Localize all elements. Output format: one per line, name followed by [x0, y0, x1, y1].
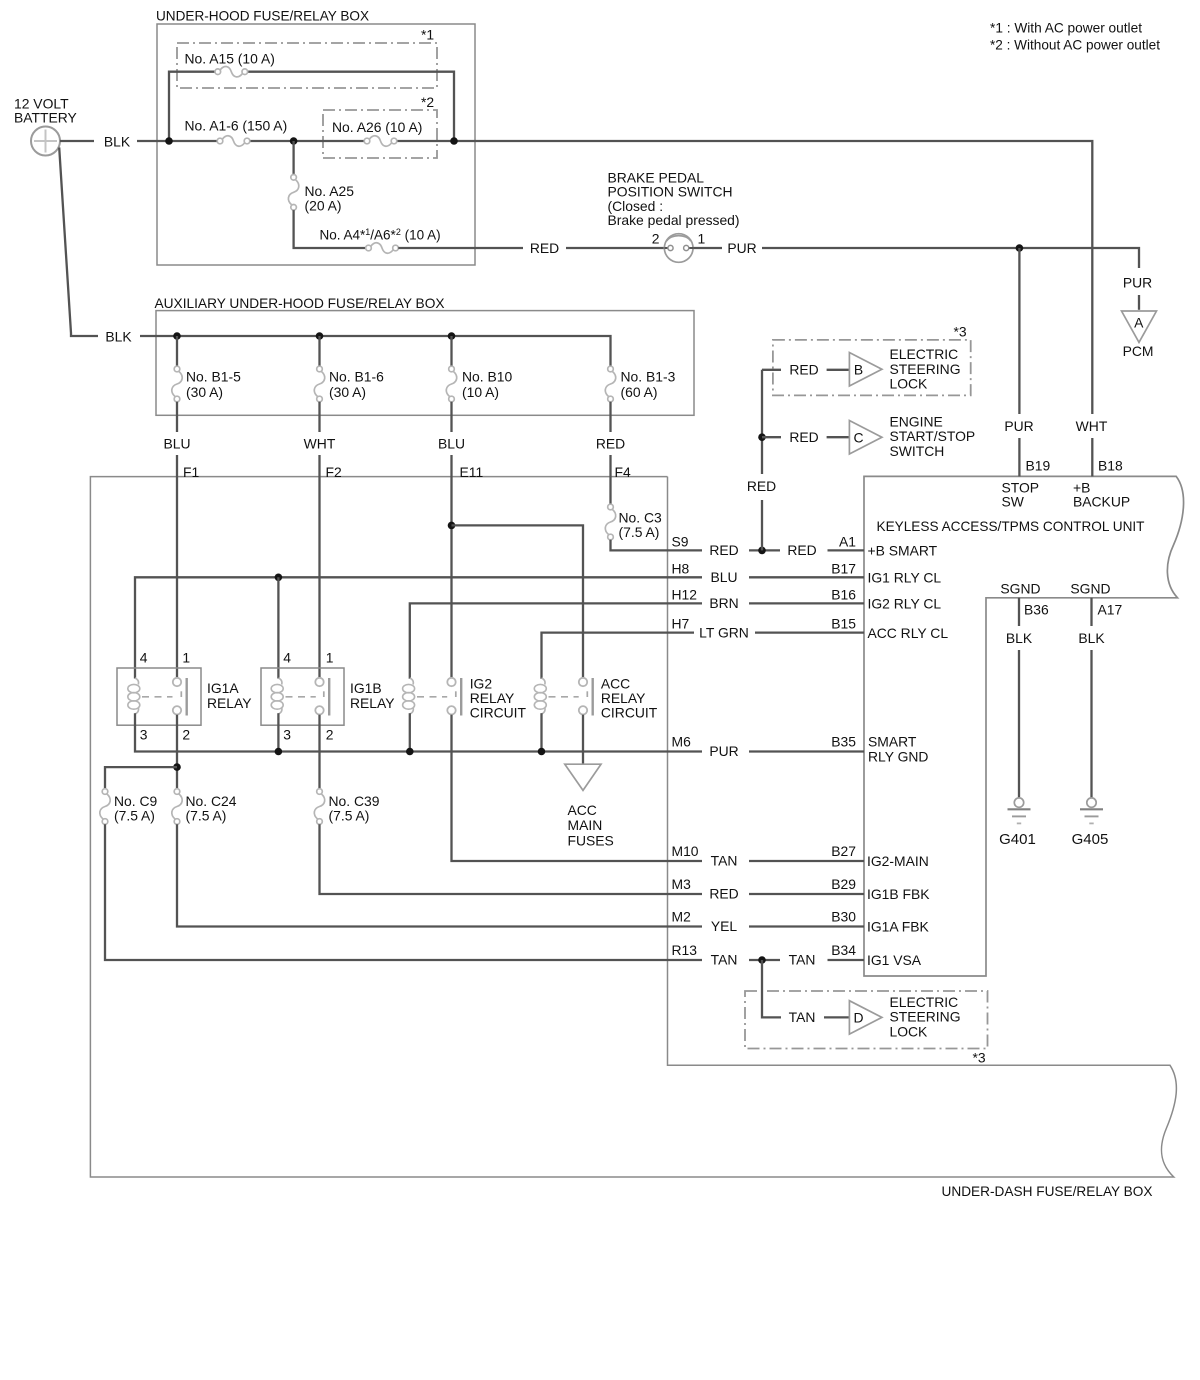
- svg-text:WHT: WHT: [304, 435, 336, 451]
- svg-text:IG1B FBK: IG1B FBK: [867, 886, 930, 902]
- node E11 branch to ACC switch: [448, 522, 456, 530]
- svg-text:LOCK: LOCK: [890, 1023, 929, 1039]
- svg-text:RED: RED: [530, 240, 559, 256]
- node aux bus junction B1-6: [316, 332, 324, 340]
- node M6 junction ACC: [538, 748, 546, 756]
- svg-text:MAIN: MAIN: [568, 817, 603, 833]
- svg-text:4: 4: [140, 650, 148, 666]
- svg-text:RED: RED: [789, 362, 818, 378]
- wire PUR drop to STOP SW pin B19 lower: [1018, 438, 1020, 476]
- svg-text:B19: B19: [1026, 458, 1051, 474]
- svg-text:LT GRN: LT GRN: [699, 624, 749, 640]
- connector D to electric steering lock: [849, 1001, 882, 1034]
- svg-text:No. A15 (10 A): No. A15 (10 A): [185, 51, 275, 67]
- svg-text:*3: *3: [954, 323, 967, 339]
- wire PUR to pin B35: [749, 750, 864, 752]
- svg-text:IG2-MAIN: IG2-MAIN: [867, 853, 929, 869]
- svg-text:TAN: TAN: [789, 952, 816, 968]
- svg-text:START/STOP: START/STOP: [890, 428, 976, 444]
- wire TAN R13 from fuse C9: [105, 824, 702, 960]
- svg-text:1: 1: [326, 650, 334, 666]
- svg-text:1: 1: [698, 231, 706, 247]
- svg-text:SWITCH: SWITCH: [890, 443, 945, 459]
- dash-dot option box *3 (electric steering lock D): [745, 991, 988, 1049]
- svg-text:IG2 RLY CL: IG2 RLY CL: [868, 596, 942, 612]
- svg-text:TAN: TAN: [711, 853, 738, 869]
- fuse No. C9 (7.5 A): [100, 789, 110, 825]
- wire BLU H8 from IG1A pin 4 to box edge: [135, 577, 702, 678]
- svg-text:UNDER-DASH FUSE/RELAY BOX: UNDER-DASH FUSE/RELAY BOX: [942, 1183, 1153, 1199]
- node RED riser junction to C: [758, 433, 766, 441]
- under-dash fuse/relay box outline (torn right edge): [90, 477, 1176, 1177]
- dash-dot option box *3 (electric steering lock B): [773, 340, 971, 396]
- svg-text:H12: H12: [672, 587, 698, 603]
- relay ACC contacts: [579, 678, 587, 715]
- svg-text:*3: *3: [973, 1050, 986, 1066]
- dash-dot option box *2 (No. A26): [323, 110, 437, 158]
- svg-text:No. A1-6 (150 A): No. A1-6 (150 A): [185, 118, 288, 134]
- dash-dot option box *1 (No. A15): [177, 43, 437, 88]
- battery 12 VOLT BATTERY symbol: [31, 127, 60, 156]
- svg-text:BLK: BLK: [1078, 630, 1105, 646]
- svg-text:G405: G405: [1072, 831, 1109, 848]
- svg-text:B34: B34: [831, 942, 856, 958]
- wire A15 branch right riser: [248, 72, 454, 141]
- node aux bus junction B1-5: [173, 332, 181, 340]
- svg-text:RED: RED: [789, 429, 818, 445]
- svg-text:ACC: ACC: [568, 802, 597, 818]
- fuse No. B1-3 (60 A): [605, 366, 615, 402]
- svg-text:No. B10: No. B10: [462, 369, 512, 385]
- wire RED riser top corner to B: [762, 369, 781, 371]
- svg-text:RELAY: RELAY: [207, 695, 252, 711]
- svg-text:BACKUP: BACKUP: [1073, 494, 1130, 510]
- fuse No. A26 (10 A): [364, 136, 397, 146]
- svg-text:G401: G401: [999, 831, 1036, 848]
- wire BRN H12 from IG2 coil to box edge: [410, 603, 702, 678]
- svg-text:*1 : With AC power outlet: *1 : With AC power outlet: [990, 20, 1142, 36]
- connector A to PCM: [1122, 311, 1157, 342]
- svg-text:ENGINE: ENGINE: [890, 413, 943, 429]
- wire RED A4 fuse to brake switch: [398, 247, 523, 249]
- svg-text:H8: H8: [672, 560, 690, 576]
- wire RED label to brake switch: [566, 247, 664, 249]
- wire TAN M10 from IG2 switch: [452, 715, 703, 861]
- svg-text:R13: R13: [672, 942, 698, 958]
- svg-text:H7: H7: [672, 616, 690, 632]
- svg-text:3: 3: [140, 727, 148, 743]
- svg-text:F1: F1: [183, 464, 199, 480]
- wire BLK battery to under-hood box: [60, 140, 94, 142]
- fuse No. B1-6 (30 A): [314, 366, 324, 402]
- node main bus middle junction (A25 tap): [290, 137, 298, 145]
- wire H8 branch down to IG1B pin 4: [277, 577, 279, 678]
- svg-text:No. C24: No. C24: [186, 793, 237, 809]
- svg-text:(7.5 A): (7.5 A): [114, 808, 155, 824]
- svg-text:BLU: BLU: [710, 569, 737, 585]
- node main bus left junction: [165, 137, 173, 145]
- wire TAN R13 mid segment: [749, 959, 780, 961]
- svg-text:B29: B29: [831, 876, 856, 892]
- svg-text:E11: E11: [460, 464, 484, 480]
- wire WHT drop to +B BACKUP pin B18 lower: [1091, 438, 1093, 476]
- node +B SMART junction: [758, 547, 766, 555]
- svg-text:KEYLESS ACCESS/TPMS CONTROL UN: KEYLESS ACCESS/TPMS CONTROL UNIT: [877, 518, 1146, 534]
- wire BLU F1 down to IG1A relay pin 1: [176, 455, 178, 678]
- under-hood fuse/relay box outline: [157, 24, 475, 265]
- svg-text:+B SMART: +B SMART: [868, 543, 938, 559]
- wire RED M3 from fuse C39: [320, 824, 703, 894]
- svg-text:S9: S9: [672, 534, 689, 550]
- connector C to engine start/stop switch: [849, 421, 882, 455]
- wire RED riser lower: [761, 500, 763, 550]
- svg-text:A17: A17: [1098, 602, 1123, 618]
- wire WHT F2 upper: [318, 402, 320, 432]
- svg-text:2: 2: [182, 727, 190, 743]
- svg-text:LOCK: LOCK: [890, 376, 929, 392]
- svg-text:B17: B17: [831, 560, 856, 576]
- svg-text:(30 A): (30 A): [329, 384, 366, 400]
- svg-text:B16: B16: [831, 587, 856, 603]
- wire RED F4 upper: [609, 402, 611, 432]
- wire TAN drop to D: [762, 960, 781, 1017]
- fuse No. A1-6 (150 A): [217, 136, 250, 146]
- svg-text:ELECTRIC: ELECTRIC: [890, 994, 959, 1010]
- svg-text:PUR: PUR: [727, 240, 756, 256]
- svg-text:(60 A): (60 A): [621, 384, 658, 400]
- svg-text:B18: B18: [1098, 458, 1123, 474]
- svg-text:PUR: PUR: [709, 743, 738, 759]
- svg-text:BLK: BLK: [104, 133, 131, 149]
- node main bus right junction (A15 rejoin): [450, 137, 458, 145]
- wire BLK battery slant down to aux bus: [59, 148, 98, 337]
- svg-text:B30: B30: [831, 909, 856, 925]
- wire RED to C label: [762, 436, 781, 438]
- svg-text:(7.5 A): (7.5 A): [619, 524, 660, 540]
- wire B10 tap down: [450, 336, 452, 366]
- svg-text:WHT: WHT: [1076, 418, 1108, 434]
- svg-text:BLU: BLU: [438, 435, 465, 451]
- connector triangle ACC MAIN FUSES: [565, 764, 601, 790]
- wire PUR stub to connector A: [1138, 295, 1140, 310]
- wire BLK aux bus: [140, 336, 611, 366]
- relay IG1A actuation dashed link: [142, 696, 173, 698]
- wire YEL M2 from fuse C24: [177, 824, 702, 926]
- relay IG1A contacts: [173, 678, 181, 715]
- svg-text:TAN: TAN: [711, 952, 738, 968]
- wire main bus A26 to WHT corner down to B18: [397, 141, 1093, 414]
- node M6 junction IG1B: [275, 748, 283, 756]
- svg-text:No. C39: No. C39: [329, 793, 380, 809]
- svg-text:No. A26 (10 A): No. A26 (10 A): [332, 119, 422, 135]
- relay IG1A coil: [128, 678, 140, 714]
- wire BLK B36 to ground: [1018, 650, 1020, 798]
- svg-text:STEERING: STEERING: [890, 1009, 961, 1025]
- svg-text:No. B1-6: No. B1-6: [329, 369, 384, 385]
- node R13 junction to D: [758, 956, 766, 964]
- svg-text:IG1 RLY CL: IG1 RLY CL: [868, 570, 942, 586]
- wire PUR to PCM corner: [762, 248, 1139, 268]
- connector B to electric steering lock: [849, 353, 882, 387]
- svg-text:UNDER-HOOD FUSE/RELAY BOX: UNDER-HOOD FUSE/RELAY BOX: [156, 8, 369, 24]
- node M6 junction IG2: [406, 748, 414, 756]
- svg-text:(7.5 A): (7.5 A): [186, 808, 227, 824]
- wire YEL to pin B30: [749, 925, 864, 927]
- svg-text:M10: M10: [672, 843, 699, 859]
- svg-text:B27: B27: [831, 843, 856, 859]
- wire TAN to pin B34: [828, 959, 865, 961]
- svg-text:F4: F4: [615, 464, 631, 480]
- svg-text:B35: B35: [831, 734, 856, 750]
- svg-text:B15: B15: [831, 616, 856, 632]
- wire BLK B36 upper: [1018, 598, 1020, 626]
- relay IG2 contacts: [447, 678, 455, 715]
- wire RED to pin A1: [828, 549, 865, 551]
- svg-text:*1: *1: [421, 27, 434, 43]
- svg-text:F2: F2: [326, 464, 342, 480]
- svg-text:RED: RED: [709, 542, 738, 558]
- relay ACC coil: [534, 678, 546, 714]
- svg-text:(20 A): (20 A): [305, 198, 342, 214]
- wire main bus fuse A1-6 to A26: [250, 140, 364, 142]
- wire RED F4 down to fuse C3: [609, 455, 611, 504]
- keyless access/TPMS control unit box outline (torn right edge): [864, 476, 1184, 976]
- wire IG1B pin 2 down: [318, 715, 320, 789]
- ground G401: [999, 798, 1036, 848]
- svg-text:B36: B36: [1024, 602, 1049, 618]
- wire RED to connector B: [827, 369, 850, 371]
- svg-text:BRN: BRN: [709, 595, 738, 611]
- wire PUR drop to STOP SW pin B19 upper: [1018, 248, 1020, 414]
- svg-text:Brake pedal pressed): Brake pedal pressed): [608, 212, 740, 228]
- wire B1-5 tap down: [176, 336, 178, 366]
- svg-text:No. B1-3: No. B1-3: [621, 369, 676, 385]
- svg-text:IG1A FBK: IG1A FBK: [867, 918, 929, 934]
- relay IG2 coil: [403, 678, 415, 714]
- svg-text:ELECTRIC: ELECTRIC: [890, 346, 959, 362]
- svg-text:TAN: TAN: [789, 1009, 816, 1025]
- svg-text:SW: SW: [1002, 494, 1025, 510]
- svg-text:M2: M2: [672, 909, 692, 925]
- auxiliary under-hood fuse/relay box outline: [156, 311, 694, 416]
- wire BLU F1 upper: [176, 402, 178, 432]
- wire M6 bus from IG1A pin 3: [135, 713, 702, 751]
- fuse No. C39 (7.5 A): [314, 789, 324, 825]
- node aux bus junction B10: [448, 332, 456, 340]
- wire A25 to A4 fuse: [294, 210, 366, 248]
- svg-text:(30 A): (30 A): [186, 384, 223, 400]
- relay IG1B box: [261, 668, 344, 725]
- svg-text:BLU: BLU: [163, 435, 190, 451]
- svg-text:SGND: SGND: [1070, 581, 1110, 597]
- svg-text:RED: RED: [787, 542, 816, 558]
- brake pedal position switch SW1: [664, 234, 693, 263]
- svg-text:RLY GND: RLY GND: [868, 749, 928, 765]
- svg-text:RED: RED: [747, 478, 776, 494]
- svg-text:(7.5 A): (7.5 A): [329, 808, 370, 824]
- fuse No. B10 (10 A): [446, 366, 456, 402]
- wire A25 tap down: [292, 141, 294, 175]
- svg-text:RED: RED: [709, 886, 738, 902]
- svg-text:PUR: PUR: [1123, 275, 1152, 291]
- ground G405: [1072, 798, 1109, 848]
- fuse No. C24 (7.5 A): [172, 789, 182, 825]
- node PUR junction to B19: [1016, 244, 1024, 252]
- wire RED S9 mid segment: [749, 549, 780, 551]
- svg-text:BLK: BLK: [105, 328, 132, 344]
- wire BRN to pin B16: [749, 602, 864, 604]
- wire BLU E11 upper: [450, 402, 452, 432]
- wire ACC coil to M6 bus: [540, 713, 542, 751]
- wire IG1A pin 2 down: [176, 715, 178, 789]
- relay IG1B contacts: [315, 678, 323, 715]
- svg-text:M6: M6: [672, 734, 692, 750]
- wire ACC switch to ACC main fuses: [582, 715, 584, 765]
- fuse No. A4*1/A6*2 (10 A): [366, 243, 399, 253]
- svg-text:A: A: [1134, 315, 1144, 331]
- svg-text:RELAY: RELAY: [350, 695, 395, 711]
- wire BLK A17 to ground: [1090, 650, 1092, 798]
- wire RED riser upper: [761, 370, 763, 474]
- node H8 branch to IG1B pin 4: [275, 574, 283, 582]
- wire PUR switch to PUR label: [693, 247, 722, 249]
- svg-text:C: C: [853, 430, 863, 446]
- wire BLU E11 down to IG2 switch: [450, 455, 452, 679]
- svg-text:RED: RED: [596, 435, 625, 451]
- relay IG1B actuation dashed link: [286, 696, 316, 698]
- relay IG1A box: [117, 668, 201, 725]
- svg-text:IG1A: IG1A: [207, 680, 239, 696]
- svg-text:IG1 VSA: IG1 VSA: [867, 952, 922, 968]
- wire RED to connector C: [827, 436, 850, 438]
- svg-text:3: 3: [283, 727, 291, 743]
- svg-text:*2: *2: [421, 94, 434, 110]
- svg-text:FUSES: FUSES: [568, 832, 614, 848]
- svg-text:2: 2: [652, 231, 660, 247]
- svg-text:No. C9: No. C9: [114, 793, 158, 809]
- svg-text:A1: A1: [839, 534, 856, 550]
- svg-text:YEL: YEL: [711, 918, 738, 934]
- svg-text:No. A4*1/A6*2 (10 A): No. A4*1/A6*2 (10 A): [320, 227, 441, 243]
- svg-text:*2 : Without AC power outlet: *2 : Without AC power outlet: [990, 37, 1160, 53]
- svg-text:D: D: [853, 1010, 863, 1026]
- svg-text:4: 4: [283, 650, 291, 666]
- wire C3 out to S9: [611, 540, 703, 551]
- wire TAN to pin B27: [749, 860, 864, 862]
- relay ACC actuation dashed link: [549, 696, 579, 698]
- fuse No. B1-5 (30 A): [172, 366, 182, 402]
- svg-text:2: 2: [326, 727, 334, 743]
- wire LT GRN H7 from ACC coil to box edge: [542, 633, 695, 679]
- svg-text:(10 A): (10 A): [462, 384, 499, 400]
- svg-text:PUR: PUR: [1004, 418, 1033, 434]
- wire IG1B pin 3 to M6 bus: [277, 713, 279, 751]
- wire B1-6 tap down: [318, 336, 320, 366]
- relay IG1B coil: [271, 678, 283, 714]
- fuse No. A25 (20 A): [288, 175, 298, 211]
- wire RED to pin B29: [749, 893, 864, 895]
- svg-text:BATTERY: BATTERY: [14, 110, 77, 126]
- fuse No. C3 (7.5 A): [605, 504, 615, 540]
- wire node A15 branch left riser: [169, 72, 215, 141]
- svg-text:PCM: PCM: [1123, 343, 1154, 359]
- svg-text:STEERING: STEERING: [890, 361, 961, 377]
- wire IG2 coil to M6 bus: [409, 713, 411, 751]
- wire LT GRN to pin B15: [755, 631, 864, 633]
- svg-text:M3: M3: [672, 876, 692, 892]
- wire E11 branch to ACC relay switch: [452, 525, 584, 678]
- svg-text:1: 1: [182, 650, 190, 666]
- svg-text:B: B: [854, 362, 863, 378]
- svg-text:IG1B: IG1B: [350, 680, 382, 696]
- wire branch to fuse C9: [105, 767, 177, 789]
- node C24/C9 junction: [173, 763, 181, 771]
- wire WHT F2 down to IG1B relay pin 1: [318, 455, 320, 678]
- fuse No. A15 (10 A): [215, 66, 248, 76]
- svg-text:AUXILIARY UNDER-HOOD FUSE/RELA: AUXILIARY UNDER-HOOD FUSE/RELAY BOX: [155, 295, 445, 311]
- svg-text:CIRCUIT: CIRCUIT: [470, 705, 527, 721]
- relay IG2 actuation dashed link: [417, 696, 447, 698]
- svg-text:SMART: SMART: [868, 734, 917, 750]
- svg-text:ACC RLY CL: ACC RLY CL: [868, 625, 949, 641]
- svg-text:SGND: SGND: [1000, 581, 1040, 597]
- svg-text:CIRCUIT: CIRCUIT: [601, 705, 658, 721]
- svg-text:BLK: BLK: [1006, 630, 1033, 646]
- svg-text:No. B1-5: No. B1-5: [186, 369, 241, 385]
- wire BLK A17 upper: [1090, 598, 1092, 626]
- wire BLK into box to node: [137, 140, 217, 142]
- wire BLU to pin B17: [749, 576, 864, 578]
- wire TAN to connector D: [824, 1016, 849, 1018]
